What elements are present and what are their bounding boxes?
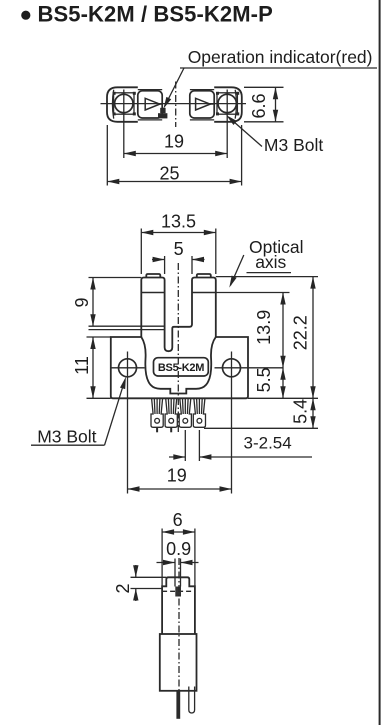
horizontal centerline [101, 103, 247, 105]
centerline side [178, 558, 180, 700]
mounting hole right (front) [223, 359, 241, 377]
dim 2 (side) [131, 565, 167, 601]
pin 2 [165, 399, 177, 433]
receiver window right [190, 91, 214, 118]
dim 3-2.54 [169, 430, 312, 461]
mounting hole left (front) [119, 359, 137, 377]
svg-text:axis: axis [255, 252, 286, 272]
dim 5 [152, 256, 205, 274]
svg-text:BS5-K2M / BS5-K2M-P: BS5-K2M / BS5-K2M-P [38, 2, 273, 27]
operation indicator LED (top view) [158, 108, 167, 119]
LED (side) [175, 587, 181, 597]
svg-text:19: 19 [164, 132, 184, 152]
dim 6 (side) [162, 529, 195, 587]
lower body [160, 634, 197, 691]
boss corner marks [113, 92, 240, 116]
dim 22.2 [312, 277, 314, 399]
svg-text:11: 11 [72, 356, 92, 375]
ears and body sides [111, 337, 248, 398]
dim 0.9 (side) [157, 559, 199, 587]
end cap line left [112, 90, 113, 119]
bump right [197, 274, 211, 278]
front body outline [111, 274, 248, 398]
end cap line right [235, 90, 236, 119]
dim 5.4 [312, 398, 314, 428]
hidden dashed line [162, 590, 195, 592]
svg-text:2: 2 [113, 583, 133, 593]
svg-text:9: 9 [72, 297, 92, 307]
pin 4 [193, 399, 205, 428]
dim 19 (top view) [124, 153, 227, 155]
pin thick (side) [176, 691, 180, 719]
svg-text:13.5: 13.5 [161, 212, 196, 232]
dim 13.5 [141, 229, 216, 275]
svg-text:5: 5 [174, 239, 184, 259]
mounting hole right (top view) [218, 94, 236, 112]
dim 25 (top view) [107, 125, 241, 186]
dim 9 (left) [89, 278, 165, 330]
body outline (with indented mid-section) [107, 87, 242, 122]
dim 6.6 (top view) [244, 87, 284, 122]
lens line left prong [141, 292, 164, 294]
lens line right prong [192, 292, 216, 294]
fork block with slot [141, 278, 216, 352]
vertical centerline [175, 82, 177, 128]
svg-text:5.4: 5.4 [290, 399, 310, 424]
dim 11 (left) [87, 337, 111, 398]
centerline front [177, 263, 179, 433]
pin U (side) [189, 687, 195, 714]
svg-text:25: 25 [160, 163, 180, 183]
svg-text:19: 19 [167, 465, 187, 485]
svg-text:M3 Bolt: M3 Bolt [264, 135, 323, 155]
emitter window left [138, 91, 163, 118]
bolt boss squares [114, 93, 238, 114]
page right border [379, 0, 381, 725]
svg-text:M3 Bolt: M3 Bolt [37, 427, 96, 447]
svg-text:0.9: 0.9 [166, 539, 191, 559]
svg-text:13.9: 13.9 [254, 310, 274, 345]
mounting hole left (top view) [115, 94, 133, 112]
right side extension lines [204, 277, 318, 429]
pins (front view) [151, 399, 206, 433]
svg-text:5.5: 5.5 [254, 367, 274, 392]
label plate [154, 358, 209, 376]
side body upper column [160, 577, 197, 691]
title bullet [21, 11, 30, 20]
svg-text:3-2.54: 3-2.54 [244, 434, 292, 453]
svg-text:6: 6 [173, 510, 183, 530]
dim 5.5 [282, 368, 284, 399]
svg-text:6.6: 6.6 [249, 93, 269, 118]
pin 3 [179, 399, 191, 428]
svg-text:BS5-K2M: BS5-K2M [158, 362, 204, 374]
dim 19 (front) [128, 488, 232, 490]
svg-text:Operation indicator(red): Operation indicator(red) [188, 47, 373, 67]
svg-text:22.2: 22.2 [290, 315, 310, 350]
bump left [146, 274, 160, 278]
dim 13.9 [282, 293, 284, 368]
inner contour with tab [141, 337, 216, 394]
pin 1 [151, 399, 163, 433]
